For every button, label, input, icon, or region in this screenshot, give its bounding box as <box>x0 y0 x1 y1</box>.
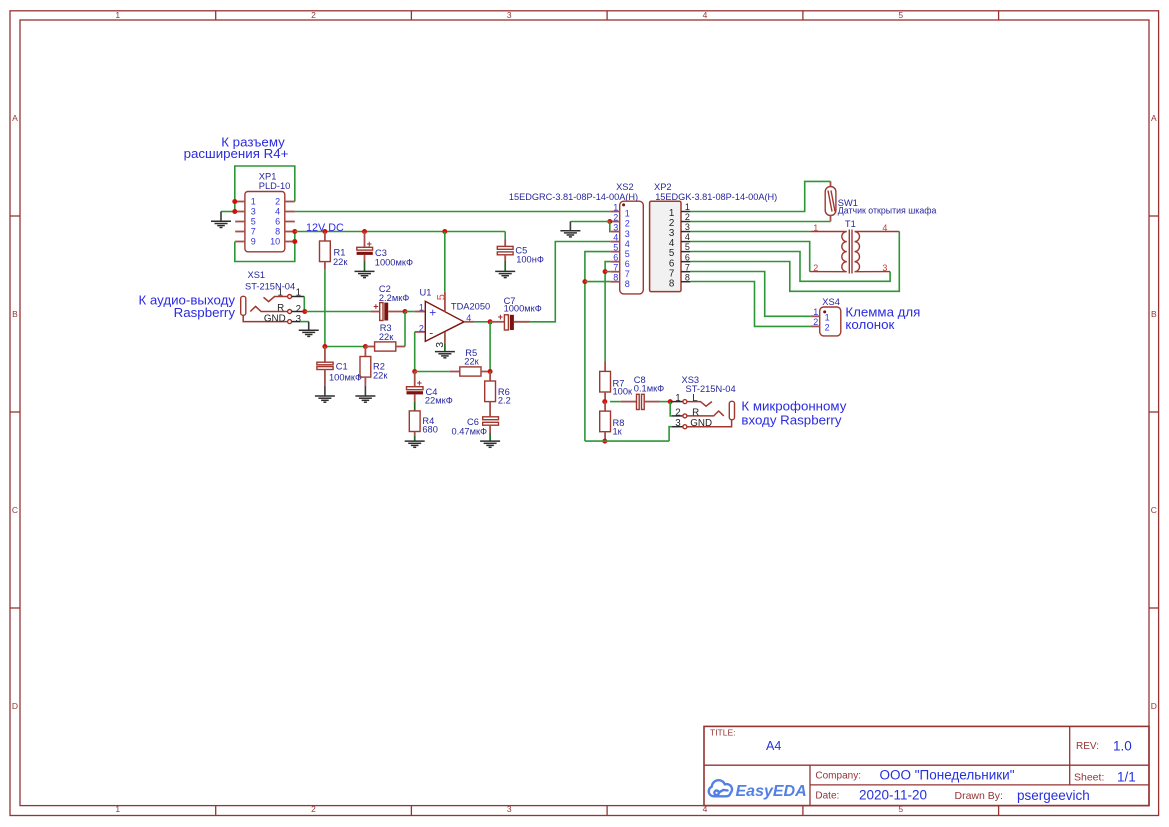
svg-text:+: + <box>429 305 436 319</box>
wire node C1 R2 <box>325 346 366 348</box>
wire rail to XS3 pin3 <box>669 427 672 441</box>
resistor R7 <box>600 371 611 392</box>
pin C4 top <box>414 372 416 387</box>
pin 1 XP2 <box>681 211 690 213</box>
frame row ticks left <box>10 215 20 217</box>
svg-text:22к: 22к <box>464 357 479 367</box>
pin 4 XP2 <box>681 241 690 243</box>
svg-text:Company:: Company: <box>815 771 861 782</box>
pin 8 XP1 <box>285 231 295 233</box>
pin C2 right <box>388 311 405 313</box>
svg-text:2: 2 <box>311 10 316 20</box>
resistor R2 <box>360 357 371 378</box>
svg-text:Date:: Date: <box>815 791 839 802</box>
capacitor C5 <box>497 246 513 249</box>
svg-text:1: 1 <box>625 209 630 219</box>
svg-text:R: R <box>692 407 699 418</box>
svg-text:7: 7 <box>251 227 256 237</box>
svg-text:3: 3 <box>434 342 446 348</box>
ground XS2 <box>560 231 580 237</box>
svg-text:6: 6 <box>613 252 618 262</box>
XS2 pin1 marker <box>622 203 625 206</box>
svg-text:3: 3 <box>625 229 630 239</box>
pin 8 XS2 <box>610 281 619 283</box>
svg-text:5: 5 <box>251 217 256 227</box>
pin R7 top <box>604 362 606 372</box>
pin 5 XS2 <box>610 251 619 253</box>
svg-text:1/1: 1/1 <box>1117 770 1136 785</box>
svg-text:8: 8 <box>685 272 690 282</box>
wire XS2 pin8 <box>585 281 610 283</box>
svg-text:XP2: XP2 <box>654 182 672 192</box>
wire C4 to R4 <box>414 402 416 411</box>
wire XS1 to C2 <box>305 311 371 313</box>
svg-text:22к: 22к <box>379 332 394 342</box>
pin 5 U1 <box>444 292 446 312</box>
pin R8 top <box>604 402 606 412</box>
pin R1 bottom <box>324 262 326 269</box>
svg-text:6: 6 <box>625 259 630 269</box>
svg-text:7: 7 <box>613 262 618 272</box>
svg-text:9: 9 <box>251 237 256 247</box>
pin 6 XP2 <box>681 261 690 263</box>
connector XP1 body <box>245 192 285 252</box>
svg-text:XS4: XS4 <box>822 297 840 307</box>
junction XP1 pin8 <box>292 229 297 234</box>
capacitor C8 <box>637 394 640 409</box>
wire node to R5 <box>415 371 450 373</box>
XS3 pin 2 contact <box>687 411 724 416</box>
pin 2 U1 <box>415 331 426 333</box>
svg-text:5: 5 <box>625 249 630 259</box>
junction XS2 pin7 <box>603 269 608 274</box>
pin 6 XS2 <box>610 261 619 263</box>
svg-text:1: 1 <box>675 393 680 404</box>
pin stub XS1 1 <box>292 296 305 298</box>
pin C3 bottom <box>364 255 366 261</box>
junction C2 U1 pin1 <box>403 309 408 314</box>
svg-text:4: 4 <box>685 232 690 242</box>
svg-text:+: + <box>498 312 503 322</box>
capacitor C1 <box>317 362 333 365</box>
pin 7 XS2 <box>610 271 619 273</box>
wire XP2 pin6 to T1 pin4 <box>690 232 899 292</box>
svg-text:1: 1 <box>115 10 120 20</box>
svg-text:8: 8 <box>275 227 280 237</box>
svg-text:100нФ: 100нФ <box>516 255 544 265</box>
svg-text:XS2: XS2 <box>616 182 634 192</box>
svg-text:1000мкФ: 1000мкФ <box>504 303 542 313</box>
ground XS1 <box>299 330 319 336</box>
wire XP2 pin1 to SW1 <box>690 181 830 211</box>
svg-text:3: 3 <box>507 804 512 814</box>
T1 secondary winding <box>855 232 900 272</box>
pin 2 XS2 <box>610 221 619 223</box>
ground R4 <box>405 441 425 447</box>
frame row ticks right <box>1149 215 1159 217</box>
junction U1 output <box>488 319 493 324</box>
svg-text:A: A <box>1151 113 1157 123</box>
pin R5 left <box>450 371 460 373</box>
svg-text:7: 7 <box>625 269 630 279</box>
svg-text:4: 4 <box>275 207 280 217</box>
EasyEDA logo <box>709 780 732 796</box>
svg-text:4: 4 <box>625 239 630 249</box>
XS1 pin 1 contact <box>264 297 288 302</box>
ground C1 <box>315 396 335 402</box>
svg-text:5: 5 <box>435 294 447 300</box>
svg-text:1: 1 <box>825 313 830 323</box>
ground stem R2 <box>364 386 366 396</box>
svg-text:22к: 22к <box>333 257 348 267</box>
pin 9 XP1 <box>235 241 245 243</box>
svg-text:0.1мкФ: 0.1мкФ <box>634 384 664 394</box>
svg-text:3: 3 <box>251 207 256 217</box>
junction rail C3 <box>362 229 367 234</box>
wire XP1 bottom loop pins 8-9-10 <box>235 232 295 262</box>
svg-text:22мкФ: 22мкФ <box>425 395 453 405</box>
pin C2 left <box>371 311 380 313</box>
connector XS4 body <box>820 307 841 336</box>
wire 12V DC rail <box>295 231 505 233</box>
svg-text:22к: 22к <box>373 371 388 381</box>
svg-text:2: 2 <box>625 219 630 229</box>
svg-text:TITLE:: TITLE: <box>710 728 736 738</box>
svg-text:1: 1 <box>296 287 301 298</box>
svg-text:XS1: XS1 <box>248 270 266 280</box>
XS1 pin 3 sleeve line <box>243 315 287 321</box>
svg-text:ST-215N-04: ST-215N-04 <box>245 282 295 292</box>
capacitor C6 <box>483 417 499 420</box>
pin SW1 top <box>830 181 832 186</box>
svg-text:1: 1 <box>115 804 120 814</box>
ground C5 <box>495 271 515 277</box>
pin C1 top <box>324 347 326 363</box>
wire XP2 pin7 to XS4 pin1 <box>690 272 810 317</box>
pin C3 top <box>364 232 366 248</box>
pin R3 left <box>365 346 374 348</box>
svg-text:Датчик открытия шкафа: Датчик открытия шкафа <box>838 205 937 215</box>
pin 3 U1 <box>444 332 446 343</box>
svg-text:2: 2 <box>813 317 818 327</box>
svg-text:2: 2 <box>311 804 316 814</box>
svg-text:колонок: колонок <box>845 317 894 332</box>
wire C3 to ground <box>364 261 366 271</box>
junction XP1 pin1 <box>232 199 237 204</box>
wire XP2 pin2 to SW1 <box>690 221 830 223</box>
svg-text:2: 2 <box>419 324 424 334</box>
junction feedback left <box>412 369 417 374</box>
svg-text:1: 1 <box>419 303 424 313</box>
ground C6 <box>480 441 500 447</box>
ground XP1 <box>211 221 231 227</box>
svg-text:100мкФ: 100мкФ <box>329 373 362 383</box>
svg-text:1000мкФ: 1000мкФ <box>375 257 413 267</box>
pin R7 bottom <box>604 392 606 402</box>
svg-text:4: 4 <box>613 232 618 242</box>
svg-text:T1: T1 <box>845 219 856 229</box>
wire C7 to XS2 pin4 <box>530 242 610 322</box>
wire C8 to XS3 <box>660 401 670 403</box>
pin 3 XP2 <box>681 231 690 233</box>
ground R2 <box>355 396 375 402</box>
svg-text:REV:: REV: <box>1076 741 1099 752</box>
svg-text:EasyEDA: EasyEDA <box>736 783 807 800</box>
junction XP1 pin3 <box>232 209 237 214</box>
wire XS2 pin6 down to R7 <box>605 262 610 362</box>
wire XS2 pin7 <box>605 271 610 273</box>
wire XP2 pin5 to T1 pin3 <box>690 252 890 282</box>
svg-text:1.0: 1.0 <box>1113 739 1132 754</box>
wire C6 to ground <box>489 433 491 441</box>
svg-text:Sheet:: Sheet: <box>1074 772 1104 784</box>
resistor R1 <box>320 241 331 262</box>
svg-text:U1: U1 <box>420 287 432 297</box>
svg-text:2.2мкФ: 2.2мкФ <box>379 293 409 303</box>
pin 1 U1 <box>415 311 426 313</box>
XS3 jack sleeve <box>729 401 734 419</box>
svg-text:XP1: XP1 <box>259 171 277 181</box>
ground stem XS2 <box>569 222 571 231</box>
pin stub XS1 3 <box>292 321 300 323</box>
svg-text:8: 8 <box>625 279 630 289</box>
wire U1 pin2 down <box>414 332 416 372</box>
pin 10 XP1 <box>285 241 295 243</box>
pin 1 XS2 <box>610 211 619 213</box>
svg-text:3: 3 <box>675 418 681 429</box>
svg-text:4: 4 <box>703 10 708 20</box>
frame column ticks top <box>215 11 217 20</box>
ground stem XS1 <box>308 322 310 331</box>
wire bottom GND rail <box>585 440 669 442</box>
pin 1 XP1 <box>235 201 245 203</box>
svg-text:D: D <box>12 701 18 711</box>
svg-text:1: 1 <box>813 223 818 233</box>
svg-text:5: 5 <box>898 10 903 20</box>
XS3 pin circles <box>683 400 687 404</box>
pin R2 top <box>364 347 366 357</box>
wire XP1 top loop pins1-2-3 <box>235 166 295 212</box>
connector XS1 jack sleeve <box>241 296 246 315</box>
XS3 pin 3 sleeve line <box>687 420 732 427</box>
junction C1 node <box>322 344 327 349</box>
svg-text:3: 3 <box>507 10 512 20</box>
ground C3 <box>355 271 375 277</box>
ground U1 <box>435 352 455 358</box>
pin 7 XP1 <box>235 231 245 233</box>
wire C5 to ground <box>504 261 506 271</box>
pin 3 XS2 <box>610 231 619 233</box>
wire C2 node to R3 <box>404 312 406 347</box>
svg-text:2: 2 <box>675 407 680 418</box>
svg-text:C: C <box>12 505 18 515</box>
pin 6 XP1 <box>285 221 295 223</box>
wire R4 to ground <box>414 436 416 441</box>
svg-text:3: 3 <box>882 263 887 273</box>
wire U1 pin3 to ground <box>444 343 446 351</box>
pin 4 U1 <box>464 321 475 323</box>
junction XS2 pin2 <box>607 219 612 224</box>
junction R8 bottom rail <box>602 439 607 444</box>
T1 core <box>848 230 850 274</box>
pin R4 bottom <box>414 432 416 437</box>
wire XS1 pin3 to ground <box>300 321 309 323</box>
pin C5 top <box>504 240 506 247</box>
svg-text:1: 1 <box>813 307 818 317</box>
pin R6 top <box>489 372 491 382</box>
resistor R3 <box>375 342 396 351</box>
wire XS1 pin1 to pin2 <box>303 297 305 312</box>
pin stub XS1 2 <box>292 311 305 313</box>
wire XP1 pin3 to ground <box>221 211 235 213</box>
svg-text:2: 2 <box>275 197 280 207</box>
resistor R8 <box>600 411 611 432</box>
svg-text:15EDGK-3.81-08P-14-00A(H): 15EDGK-3.81-08P-14-00A(H) <box>655 192 777 202</box>
pin 7 XP2 <box>681 271 690 273</box>
wire to U1 pin1 <box>405 311 415 313</box>
pin C8 left <box>621 401 637 403</box>
svg-text:8: 8 <box>669 278 675 289</box>
junction rail U1 pin5 <box>442 229 447 234</box>
pin C8 right <box>644 401 660 403</box>
svg-text:Drawn By:: Drawn By: <box>955 790 1003 802</box>
resistor R6 <box>485 381 496 402</box>
svg-text:680: 680 <box>422 425 438 435</box>
junction rail R1 <box>322 229 327 234</box>
title block <box>704 726 1149 805</box>
svg-text:расширения R4+: расширения R4+ <box>184 146 289 161</box>
wire rail to U1 pin5 <box>444 232 446 292</box>
svg-text:5: 5 <box>685 242 690 252</box>
svg-text:TDA2050: TDA2050 <box>451 301 490 311</box>
junction R7 R8 C8 <box>602 399 607 404</box>
svg-text:GND: GND <box>690 418 712 429</box>
svg-text:4: 4 <box>882 223 887 233</box>
pin R6 bottom <box>489 402 491 417</box>
wire rail to C5 <box>504 232 506 240</box>
junction R2 node <box>363 344 368 349</box>
pin SW1 bottom <box>830 216 832 222</box>
svg-text:C1: C1 <box>336 362 348 372</box>
connector XS2 body <box>620 201 644 294</box>
pin 4 XS2 <box>610 241 619 243</box>
svg-text:7: 7 <box>685 262 690 272</box>
svg-text:A: A <box>12 113 18 123</box>
svg-text:5: 5 <box>613 242 618 252</box>
XS1 pin circles <box>288 295 292 299</box>
junction XS1 pin2 <box>302 309 307 314</box>
wire XP2 pin3 to T1 pin1 <box>690 231 810 233</box>
pin 2 XS4 <box>811 325 820 327</box>
svg-text:К микрофонному: К микрофонному <box>741 398 846 413</box>
svg-text:3: 3 <box>613 222 618 232</box>
svg-text:входу Raspberry: входу Raspberry <box>741 412 841 427</box>
svg-text:100к: 100к <box>613 387 634 397</box>
svg-text:3: 3 <box>685 222 690 232</box>
pin 5 XP1 <box>235 221 245 223</box>
junction XS3 pin1 <box>668 399 673 404</box>
svg-text:C6: C6 <box>467 417 479 427</box>
pin C6 bottom <box>489 425 491 433</box>
T1 primary winding <box>810 232 847 272</box>
svg-text:GND: GND <box>264 313 286 324</box>
svg-text:Raspberry: Raspberry <box>174 305 236 320</box>
pin C7 right <box>514 321 530 323</box>
svg-text:8: 8 <box>613 273 618 283</box>
wire XP2 pin4 to T1 pin2 <box>690 242 809 272</box>
wire XS2 pin5 down <box>585 252 610 442</box>
pin C5 bottom <box>504 255 506 261</box>
svg-text:2: 2 <box>613 212 618 222</box>
wire U1 pin4 out <box>475 321 491 323</box>
resistor R5 <box>460 367 481 376</box>
svg-text:2020-11-20: 2020-11-20 <box>859 788 927 803</box>
svg-text:1: 1 <box>613 202 618 212</box>
svg-text:D: D <box>1151 701 1157 711</box>
svg-text:-: - <box>429 325 433 339</box>
svg-text:3: 3 <box>296 314 302 325</box>
connector XP2 body <box>650 201 681 291</box>
svg-text:15EDGRC-3.81-08P-14-00A(H): 15EDGRC-3.81-08P-14-00A(H) <box>509 192 638 202</box>
svg-text:PLD-10: PLD-10 <box>259 181 291 191</box>
ground near XP1 <box>220 212 222 222</box>
frame column ticks bottom <box>215 806 217 816</box>
pin stub XS3 3 <box>672 426 683 428</box>
pin R5 right <box>481 371 490 373</box>
ground stem C1 <box>324 386 326 396</box>
XS1 pin 2 contact <box>250 306 287 311</box>
pin C7 left <box>490 321 504 323</box>
svg-text:2: 2 <box>685 212 690 222</box>
wire XS2 pin2 to ground <box>570 221 609 223</box>
pin C1 bottom <box>324 370 326 386</box>
svg-text:psergeevich: psergeevich <box>1017 788 1090 803</box>
svg-text:+: + <box>373 302 378 312</box>
pin 4 XP1 <box>285 211 295 213</box>
pin C4 bottom <box>414 394 416 402</box>
svg-text:2: 2 <box>813 263 818 273</box>
svg-text:6: 6 <box>275 217 280 227</box>
svg-text:1к: 1к <box>613 427 623 437</box>
wire XP1 pin4 to XS2 pin1 <box>295 211 611 213</box>
svg-text:2.2: 2.2 <box>498 395 511 405</box>
svg-text:4: 4 <box>466 313 471 323</box>
svg-text:ООО "Понедельники": ООО "Понедельники" <box>880 768 1015 783</box>
pin R3 right <box>396 346 405 348</box>
junction XS2 pin8 <box>582 279 587 284</box>
wire XP2 pin8 to XS4 pin2 <box>690 282 810 327</box>
svg-text:1: 1 <box>685 202 690 212</box>
pin 8 XP2 <box>681 281 690 283</box>
wire R1 to node <box>324 269 326 347</box>
svg-text:A4: A4 <box>766 739 781 753</box>
wire XS2 pin2 to pin3 <box>609 222 612 232</box>
XS3 pin 1 contact <box>687 402 712 407</box>
pin R8 bottom <box>604 432 606 441</box>
wire output to R5 <box>489 322 491 372</box>
pin 3 XP1 <box>235 211 245 213</box>
pin 2 XP2 <box>681 221 690 223</box>
pin stub XS3 1 <box>672 401 683 403</box>
svg-text:2: 2 <box>825 323 830 333</box>
svg-text:C: C <box>1151 505 1157 515</box>
wire R7 node to C8 <box>610 401 621 403</box>
wire XS3 pin1 to pin2 <box>670 402 672 416</box>
svg-text:B: B <box>1151 309 1157 319</box>
pin 2 XP1 <box>285 201 295 203</box>
svg-text:6: 6 <box>685 252 690 262</box>
svg-text:B: B <box>12 309 18 319</box>
